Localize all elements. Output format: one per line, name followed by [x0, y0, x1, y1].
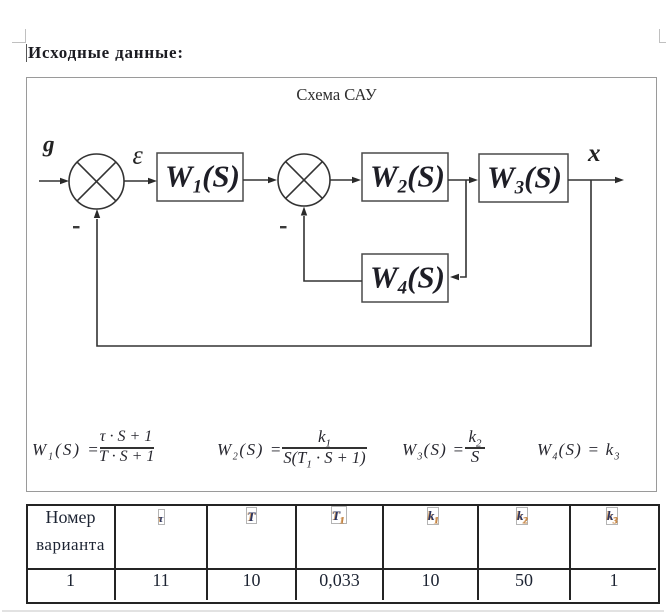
svg-text:W2(S): W2(S) [370, 159, 445, 198]
svg-text:x: x [587, 140, 601, 167]
svg-text:W3(S): W3(S) [487, 160, 562, 199]
svg-text:Схема САУ: Схема САУ [296, 85, 377, 104]
svg-text:W4(S): W4(S) [370, 260, 445, 299]
svg-text:W1(S): W1(S) [165, 159, 240, 198]
svg-text:g: g [42, 132, 55, 157]
svg-text:ε: ε [133, 141, 144, 170]
